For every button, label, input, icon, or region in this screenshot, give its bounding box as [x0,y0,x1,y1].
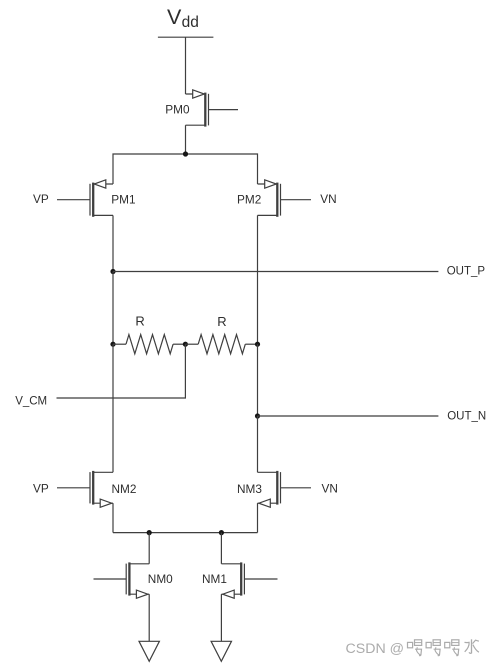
wire resistor left node down to NM2 drain [112,344,114,472]
svg-text:PM0: PM0 [165,103,190,117]
wire tail rail to PM1 and PM2 sources [113,154,258,184]
pin label VP (NM2 gate) [33,482,49,496]
wire NM3 source to source rail [257,503,259,532]
label PM0 [165,103,190,117]
svg-text:NM2: NM2 [112,482,137,496]
svg-text:PM1: PM1 [111,192,135,206]
transistor PM0 [186,90,239,127]
svg-text:NM1: NM1 [202,572,227,586]
wire net OUT_N [258,415,439,417]
wire V_CM tap [57,344,186,398]
ground (NM1 source) [211,641,231,661]
pin label VP (PM1 gate) [33,192,49,206]
transistor NM2 [57,471,113,507]
net label Vdd [167,5,199,31]
resistor R (left) [113,335,185,354]
label NM2 [112,482,137,496]
transistor NM1 [221,562,277,598]
svg-text:VN: VN [322,482,338,496]
wire OUT_P node to resistor R left [112,272,114,345]
transistor NM0 [94,562,150,598]
svg-text:V_CM: V_CM [15,395,47,407]
svg-text:OUT_P: OUT_P [447,265,486,277]
transistor NM3 [258,471,312,507]
power rail Vdd [158,36,214,38]
net label V_CM [15,395,47,407]
wire source rail [113,532,258,534]
pin label VN (PM2 gate) [320,192,336,206]
svg-text:VN: VN [320,192,336,206]
wire NM1 source to ground [220,594,222,641]
wire PM2 drain down right branch [257,215,259,344]
junction source rail right [219,530,224,535]
wire NM2 source to source rail [112,503,114,532]
label NM1 [202,572,227,586]
wire OUT_N node to NM3 drain [257,416,259,472]
svg-text:CSDN @: CSDN @ [346,641,405,657]
svg-text:V: V [167,5,182,29]
svg-text:VP: VP [33,192,49,206]
label NM0 [148,572,173,586]
label PM1 [111,192,135,206]
svg-text:dd: dd [182,14,199,31]
transistor PM2 [258,180,312,217]
wire right branch to node OUT_N [257,344,259,416]
wire rail to NM1 drain [220,533,222,564]
junction V_CM tap node [183,342,188,347]
junction resistor right node [255,342,260,347]
ground (NM0 source) [139,641,159,661]
svg-text:PM2: PM2 [237,192,261,206]
watermark CSDN [346,639,479,657]
label PM2 [237,192,261,206]
svg-text:NM0: NM0 [148,572,173,586]
junction OUT_N node [255,413,260,418]
net label OUT_P [447,265,486,277]
wire Vdd to PM0 source [185,37,187,94]
wire rail to NM0 drain [148,533,150,564]
wire PM1 drain to node OUT_P [112,215,114,271]
net label OUT_N [447,410,486,422]
value label R (left) [135,314,144,329]
wire net OUT_P [113,271,438,273]
junction OUT_P node [110,269,115,274]
transistor PM1 [57,180,113,217]
value label R (right) [217,314,226,329]
svg-text:NM3: NM3 [237,482,262,496]
svg-text:VP: VP [33,482,49,496]
label NM3 [237,482,262,496]
svg-text:OUT_N: OUT_N [447,410,486,422]
wire PM0 drain to tail node [185,125,187,154]
wire NM0 source to ground [148,594,150,641]
svg-text:R: R [135,314,144,329]
junction tail node [183,151,188,156]
pin label VN (NM3 gate) [322,482,338,496]
svg-text:R: R [217,314,226,329]
junction resistor left node [110,342,115,347]
junction source rail left [147,530,152,535]
resistor R (right) [185,335,257,354]
